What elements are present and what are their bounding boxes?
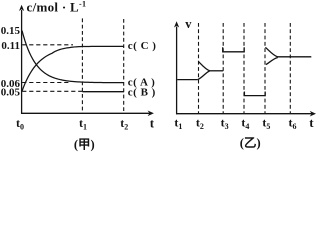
curve c(A) falling [22, 31, 124, 83]
dashed vertical t2 (right) [198, 23, 200, 113]
svg-text:t: t [309, 115, 314, 130]
dashed vertical at t1 (left) [81, 18, 83, 113]
curve c(C) rising [22, 46, 124, 91]
svg-text:v: v [185, 17, 192, 31]
dashed guide at 0.06 [22, 82, 71, 84]
right x-axis [176, 113, 312, 115]
fork 2 lower branch [266, 58, 278, 65]
fork 1 lower branch [198, 71, 210, 80]
fork 1 upper branch [198, 61, 210, 71]
left x-axis [21, 112, 150, 114]
right v-axis arrowhead [174, 21, 179, 27]
svg-text:c( B ): c( B ) [128, 86, 156, 98]
svg-text:(甲): (甲) [74, 138, 95, 152]
svg-text:c/mol · L-1: c/mol · L-1 [27, 0, 87, 15]
plateau line c(B) [82, 91, 124, 93]
left x-axis arrowhead [148, 111, 154, 117]
v segment t5-end [278, 56, 312, 58]
svg-text:0.15: 0.15 [1, 25, 21, 37]
dashed vertical at t2 (left) [123, 19, 125, 113]
right x-axis arrowhead [310, 111, 316, 117]
svg-text:(乙): (乙) [240, 136, 261, 150]
v segment t1-t2 [177, 79, 198, 81]
svg-text:0.11: 0.11 [1, 40, 20, 52]
dashed guide at 0.11 [22, 44, 73, 46]
v segment t2-t3 equilibrium [210, 70, 223, 72]
dashed vertical t6 (right) [289, 23, 291, 113]
v segment t4-t5 low with end stubs [244, 92, 265, 96]
dashed guide at 0.05 [22, 90, 82, 92]
left y-axis arrowhead [19, 5, 24, 11]
svg-text:t: t [150, 115, 155, 130]
dashed vertical t5 (right) [264, 23, 266, 113]
fork 2 upper branch [265, 47, 277, 57]
right v-axis [176, 27, 178, 115]
dashed vertical t4 (right) [243, 23, 245, 113]
svg-text:c( C ): c( C ) [128, 40, 157, 52]
left y-axis [21, 10, 23, 114]
v segment t3-t4 high with end stubs [223, 47, 245, 52]
svg-text:0.05: 0.05 [1, 87, 21, 99]
dashed vertical t3 (right) [222, 23, 224, 113]
